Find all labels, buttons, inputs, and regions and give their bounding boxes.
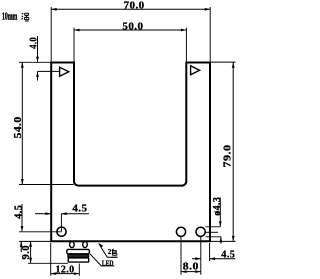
dimension 12.0 bottom	[51, 243, 80, 276]
svg-text:8.0: 8.0	[183, 261, 199, 272]
extension line hole center left	[19, 231, 62, 233]
svg-text:4.5: 4.5	[13, 205, 24, 219]
svg-text:70.0: 70.0	[124, 1, 145, 12]
svg-text:4.0: 4.0	[28, 37, 39, 49]
extension line connector bottom	[28, 262, 68, 264]
mounting hole right B	[196, 227, 205, 236]
dimension 8.0 right	[181, 237, 201, 275]
dimension 4.5 left vertical	[20, 204, 24, 252]
leader 2-colour	[98, 243, 117, 257]
svg-text:4.5: 4.5	[221, 250, 235, 261]
extension line slot bottom left	[19, 184, 74, 186]
note text 10mm deep	[2, 12, 29, 23]
extension line bottom edge left	[19, 240, 51, 242]
extension line hole center right	[206, 231, 219, 233]
optical axis triangle right	[191, 66, 200, 75]
leader LED	[90, 254, 114, 266]
mounting hole left	[57, 227, 66, 236]
svg-text:79.0: 79.0	[223, 145, 234, 168]
extension line top edge left	[19, 61, 51, 63]
connector plate top	[67, 249, 90, 253]
LED oval right	[83, 242, 88, 248]
connector band middle	[68, 254, 89, 257]
svg-text:9.0: 9.0	[21, 245, 32, 260]
LED oval left	[70, 242, 75, 248]
optical axis line left	[38, 70, 60, 72]
dimension 4.5 right	[192, 243, 235, 261]
dimension 4.5 left hole	[35, 212, 89, 231]
dimension 9.0 left	[29, 241, 32, 263]
svg-text:10mm: 10mm	[2, 12, 17, 23]
dimension 79.0 right	[211, 62, 236, 241]
svg-text:ø4.3: ø4.3	[212, 197, 223, 216]
dimension 50.0	[74, 28, 186, 62]
part outline U-shaped body	[51, 63, 210, 242]
dimension 54.0 left	[21, 62, 24, 184]
dimension 4.0 left	[36, 36, 39, 81]
svg-text:54.0: 54.0	[13, 116, 24, 138]
mounting hole right A	[176, 227, 185, 236]
dimension 70.0 top	[51, 7, 210, 62]
svg-text:12.0: 12.0	[56, 264, 75, 275]
dimension dia 4.3	[206, 198, 223, 244]
connector plate bottom	[68, 258, 89, 262]
optical axis triangle left	[60, 67, 69, 76]
svg-text:2: 2	[108, 248, 112, 256]
svg-text:4.5: 4.5	[72, 204, 87, 215]
svg-text:LED: LED	[102, 258, 114, 267]
svg-text:50.0: 50.0	[122, 21, 143, 32]
